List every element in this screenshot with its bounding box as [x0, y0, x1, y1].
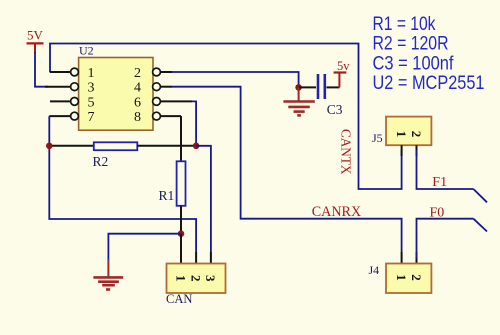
wire J4 pin2 to F0 switch	[417, 219, 488, 258]
svg-text:1: 1	[394, 274, 409, 281]
svg-text:CAN: CAN	[166, 292, 193, 306]
svg-text:8: 8	[134, 110, 141, 125]
power symbol 5v (at C3)	[334, 59, 351, 87]
svg-text:C3 = 100nf: C3 = 100nf	[373, 53, 455, 74]
svg-text:J5: J5	[372, 131, 383, 145]
resistor R1	[177, 116, 186, 234]
svg-text:F1: F1	[432, 175, 447, 190]
svg-text:4: 4	[134, 81, 141, 96]
svg-text:6: 6	[134, 95, 141, 110]
connector CAN	[167, 252, 226, 293]
pin 2	[134, 66, 172, 81]
resistor R2	[49, 142, 196, 150]
pin 1	[50, 66, 95, 81]
svg-text:R1 = 10k: R1 = 10k	[373, 14, 436, 35]
node R2 right junction	[193, 143, 200, 150]
svg-text:2: 2	[409, 274, 424, 281]
svg-text:5v: 5v	[337, 59, 350, 73]
svg-text:3: 3	[88, 81, 95, 96]
svg-text:U2 = MCP2551: U2 = MCP2551	[373, 73, 485, 94]
connector J5	[386, 117, 431, 156]
wire R2 right to CAN pin3	[196, 146, 211, 252]
power symbol 5V	[27, 28, 44, 54]
svg-text:7: 7	[88, 110, 95, 125]
svg-text:CANTX: CANTX	[337, 129, 352, 175]
svg-text:3: 3	[203, 275, 218, 282]
node R1 bottom junction	[178, 230, 185, 237]
svg-text:2: 2	[409, 131, 424, 138]
svg-text:1: 1	[394, 131, 409, 138]
svg-text:R2 = 120R: R2 = 120R	[373, 34, 449, 55]
ground (bottom left)	[93, 259, 123, 290]
svg-text:U2: U2	[79, 43, 94, 57]
wire R1 bottom to CAN pin1	[180, 234, 182, 252]
svg-text:1: 1	[88, 66, 95, 81]
pin 3	[45, 81, 95, 96]
pin 4	[134, 81, 172, 96]
wire pin6 down to R2 right junction	[192, 101, 196, 145]
wire pin2 to C3/ground junction	[172, 72, 299, 87]
svg-text:5: 5	[88, 95, 95, 110]
node R2 left junction	[46, 143, 53, 150]
svg-text:F0: F0	[430, 205, 445, 220]
ground (at C3)	[283, 87, 314, 115]
svg-text:CANRX: CANRX	[312, 204, 362, 220]
op-amp U2 chip body	[79, 58, 153, 131]
svg-text:R1: R1	[159, 188, 175, 203]
wire pin4 CANRX net	[172, 87, 402, 252]
svg-text:5V: 5V	[27, 28, 44, 43]
pin 8	[134, 110, 181, 125]
svg-text:R2: R2	[93, 154, 109, 169]
capacitor C3	[299, 74, 340, 99]
pin 6	[134, 95, 192, 110]
svg-text:J4: J4	[369, 263, 380, 277]
svg-text:1: 1	[173, 275, 188, 282]
wire junction to ground	[108, 234, 181, 260]
svg-text:C3: C3	[327, 102, 343, 117]
svg-text:2: 2	[134, 66, 141, 81]
node C3 junction	[295, 84, 302, 91]
connector J4	[386, 252, 431, 293]
wire pin7 down, across, to CAN pin2	[49, 116, 196, 252]
wire 5V to pin 3	[35, 52, 48, 87]
pin 7	[49, 110, 94, 125]
pin 5	[50, 95, 95, 110]
wire J5 pin2 to F1 switch	[417, 150, 488, 202]
svg-text:2: 2	[188, 275, 203, 282]
wire CANTX net: pin1 up, top rail, down right side	[50, 44, 402, 190]
